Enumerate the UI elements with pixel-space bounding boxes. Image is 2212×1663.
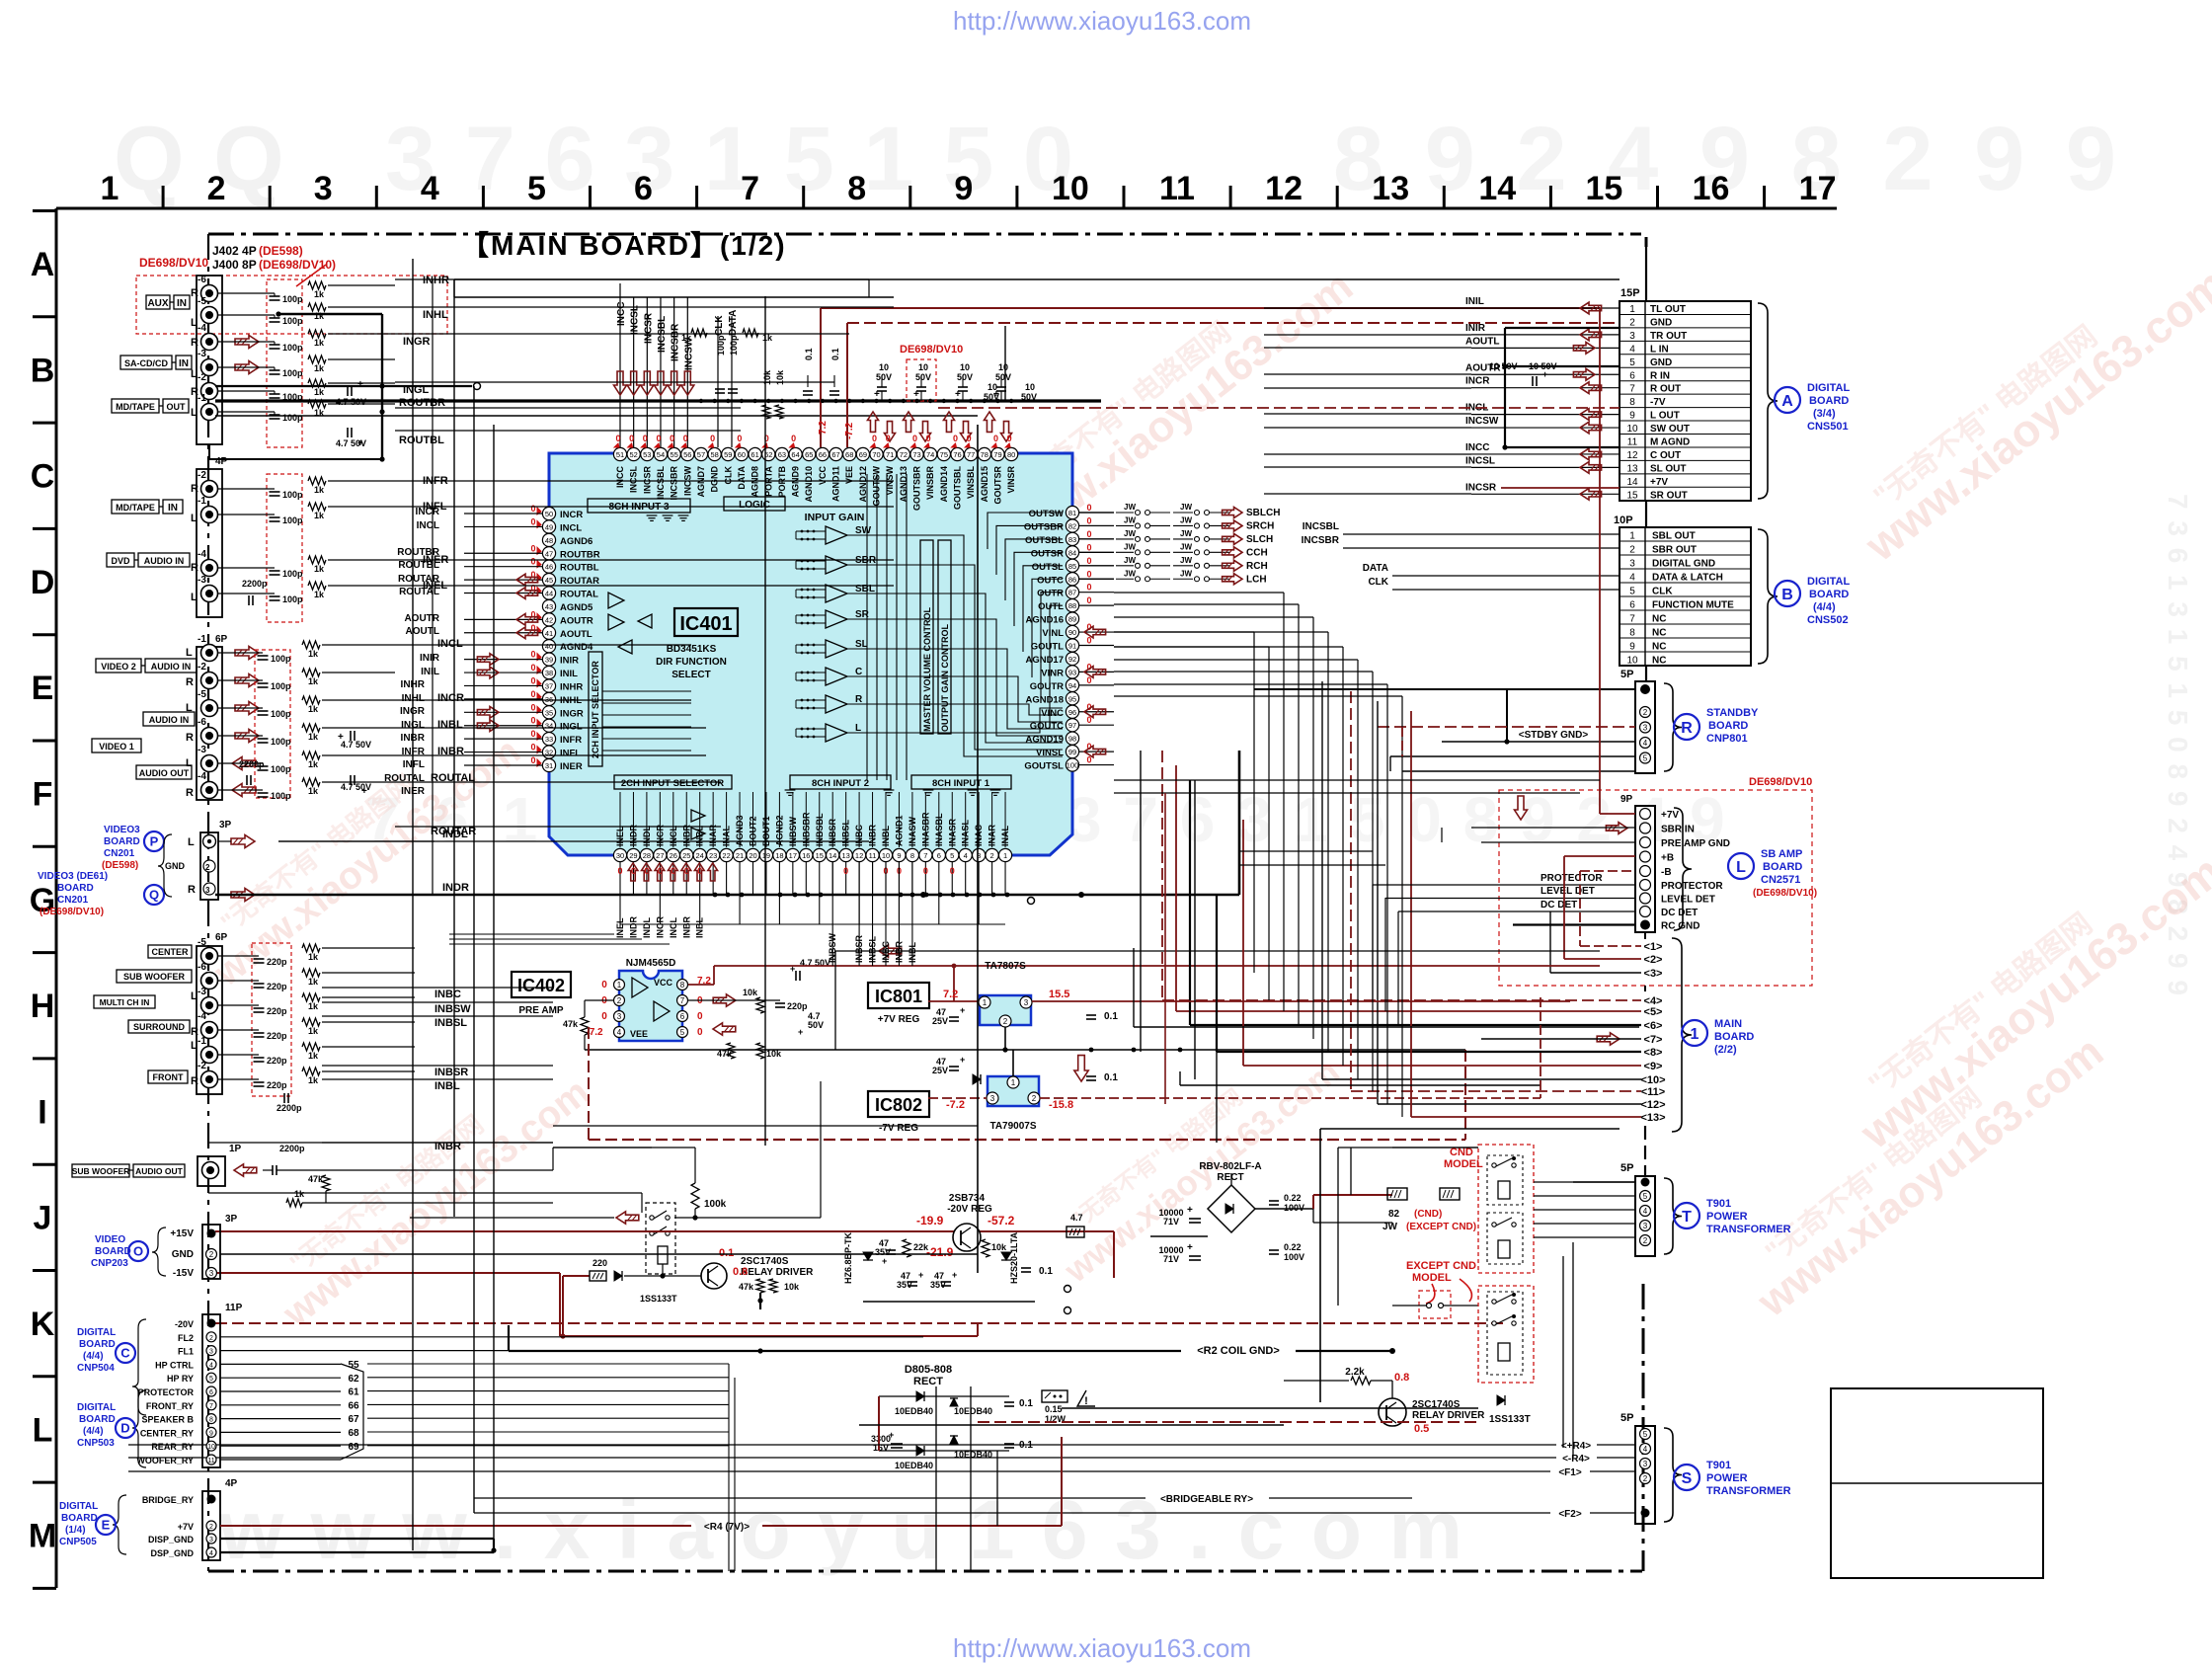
border tick xyxy=(1015,186,1018,208)
capacitor 220p xyxy=(254,1081,265,1083)
svg-text:!: ! xyxy=(1084,1395,1088,1407)
svg-text:10: 10 xyxy=(879,362,889,372)
arrow SBR IN xyxy=(1606,823,1627,834)
svg-text:1k: 1k xyxy=(314,590,325,599)
wire horizontal net xyxy=(1114,646,1343,648)
resistor 1k xyxy=(302,696,320,704)
svg-text:71V: 71V xyxy=(1163,1254,1179,1264)
svg-text:8: 8 xyxy=(910,851,914,860)
svg-text:<1>: <1> xyxy=(1644,941,1663,953)
IC401 pin 50 xyxy=(542,507,555,519)
wire AOUTR to IC401 xyxy=(464,618,542,620)
brace CNP801 xyxy=(1664,683,1682,771)
svg-text:3: 3 xyxy=(1643,724,1648,733)
svg-text:GND: GND xyxy=(172,1249,194,1260)
svg-text:92: 92 xyxy=(1068,655,1076,664)
wire AOUTL to IC401 xyxy=(464,632,542,634)
IC401 pin 85 xyxy=(1066,559,1078,572)
connector T901 5P strip xyxy=(1635,1176,1655,1256)
svg-text:1: 1 xyxy=(1629,304,1635,315)
wire INCL to IC401 xyxy=(464,525,542,527)
wire long black y1099 xyxy=(1180,1084,1540,1086)
arrow SA-CD R xyxy=(235,336,259,349)
RCA jack pin -4 xyxy=(201,782,218,799)
svg-text:INCSW: INCSW xyxy=(1465,416,1499,427)
resistor 1k xyxy=(302,969,320,977)
IC401 pin 21 xyxy=(733,848,746,861)
red dashed box caps C-D xyxy=(267,474,302,622)
regulator TA7807S body xyxy=(980,995,1031,1025)
arrow SBLCH group xyxy=(1223,574,1242,585)
circled B xyxy=(1775,581,1800,606)
svg-text:-5: -5 xyxy=(197,296,206,307)
svg-text:2: 2 xyxy=(209,1524,213,1531)
wire vertical net xyxy=(1386,684,1388,1104)
IC401 pin 44 xyxy=(542,587,555,599)
red dashed box cap 10 50V xyxy=(907,359,936,401)
svg-text:78: 78 xyxy=(981,450,988,459)
svg-text:1: 1 xyxy=(617,981,622,990)
svg-text:13: 13 xyxy=(1372,170,1409,207)
svg-text:IN: IN xyxy=(177,298,187,309)
op-amp IC801 designator xyxy=(868,983,929,1008)
svg-text:46: 46 xyxy=(545,563,553,572)
RCA jack pin -2 xyxy=(201,481,218,498)
IC401 internal wires right pins staircase xyxy=(987,513,1063,549)
IC401 pin 87 xyxy=(1066,586,1078,598)
border tick xyxy=(375,186,378,208)
arrows video2 audio in xyxy=(235,647,259,660)
svg-text:INCL: INCL xyxy=(560,522,582,533)
svg-text:6: 6 xyxy=(937,851,941,860)
resistor 47k driver xyxy=(756,1279,764,1293)
op-amp IC802 designator xyxy=(868,1091,929,1117)
wire 47k bottom xyxy=(325,1191,327,1203)
svg-text:26: 26 xyxy=(670,851,677,860)
svg-text:1: 1 xyxy=(1003,851,1007,860)
IC401 pin 16 xyxy=(800,848,813,861)
IC401 pin 28 xyxy=(640,848,653,861)
IC401 pin 92 xyxy=(1066,652,1078,665)
wire DATA to CNS502 xyxy=(1392,575,1619,577)
wire INEL long xyxy=(395,585,894,587)
capacitor 100p xyxy=(270,516,280,518)
diode 10EDB40 b xyxy=(950,1398,958,1406)
svg-text:【MAIN BOARD】(1/2): 【MAIN BOARD】(1/2) xyxy=(461,230,787,261)
capacitor 100p xyxy=(270,491,280,493)
wire CLK vertical xyxy=(717,316,719,447)
svg-text:0.5: 0.5 xyxy=(1414,1423,1429,1435)
svg-text:<2>: <2> xyxy=(1644,954,1663,966)
diode AK04VI xyxy=(973,1074,981,1084)
wire IC401 bottom pin drop xyxy=(739,862,741,924)
IC401 pin 31 xyxy=(542,758,555,771)
wire IC402 out xyxy=(688,999,780,1001)
arrow input INCSL xyxy=(627,371,640,395)
wire VEE maroon dashed horizontal xyxy=(847,322,1619,324)
wire INIL to CNS501 xyxy=(1471,307,1619,309)
svg-text:2: 2 xyxy=(205,863,210,872)
svg-text:+: + xyxy=(960,1005,965,1015)
node G xyxy=(920,892,926,898)
RCA jack pin -5 xyxy=(201,700,218,717)
svg-text:VIDEO 1: VIDEO 1 xyxy=(99,742,134,752)
IC401 MASTER VOLUME CONTROL box xyxy=(920,540,933,734)
svg-text:AOUTL: AOUTL xyxy=(1465,336,1499,347)
svg-text:2200p: 2200p xyxy=(279,1144,305,1153)
relay coil 2 xyxy=(1498,1240,1510,1258)
svg-text:3: 3 xyxy=(205,886,210,895)
svg-text:SURROUND: SURROUND xyxy=(133,1022,186,1032)
svg-text:AGND14: AGND14 xyxy=(939,466,949,503)
table divider xyxy=(1619,473,1751,475)
svg-text:SBR OUT: SBR OUT xyxy=(1652,545,1697,556)
wire T strip top feed xyxy=(1573,1181,1635,1183)
wire bottom fan xyxy=(898,862,900,966)
svg-text:41: 41 xyxy=(545,629,553,638)
capacitor 100p xyxy=(258,792,269,794)
svg-text:INBC: INBC xyxy=(434,989,461,1000)
arrow pair up xyxy=(943,412,954,432)
RCA jack pin -6 xyxy=(201,728,218,745)
table divider xyxy=(1619,623,1751,625)
wire input row xyxy=(218,567,275,569)
svg-text:DATA: DATA xyxy=(1363,563,1388,574)
svg-text:BOARD: BOARD xyxy=(1809,395,1849,407)
resistor 1k xyxy=(302,1018,320,1026)
svg-text:0: 0 xyxy=(1086,542,1091,552)
svg-text:SRCH: SRCH xyxy=(1246,520,1274,531)
circled O xyxy=(128,1241,148,1261)
wire INDL long xyxy=(278,840,869,842)
svg-text:+15V: +15V xyxy=(170,1228,194,1239)
svg-text:OUTSL: OUTSL xyxy=(1032,562,1064,573)
svg-text:L: L xyxy=(855,723,861,734)
resistor 1k xyxy=(302,1068,320,1075)
wire CNP504 pin FRONT_RY xyxy=(220,1404,341,1406)
IC402 pin 4 xyxy=(614,1027,625,1038)
svg-text:INPUT GAIN: INPUT GAIN xyxy=(805,512,865,523)
svg-text:-20V: -20V xyxy=(175,1319,194,1329)
border row tick xyxy=(33,740,56,743)
svg-text:0: 0 xyxy=(683,434,688,443)
resistor 10k IC402 xyxy=(756,997,764,1013)
svg-text:0.22: 0.22 xyxy=(1284,1193,1302,1203)
IC401 internal wires amps to right stairs xyxy=(847,535,1063,756)
svg-text:3P: 3P xyxy=(225,1214,238,1225)
connector 4P strip xyxy=(197,469,222,617)
svg-text:C: C xyxy=(31,458,55,496)
IC401 pin 37 xyxy=(542,679,555,692)
connector subwoofer 1P box xyxy=(197,1156,225,1186)
resistor 1k xyxy=(308,582,326,590)
svg-text:JW: JW xyxy=(1180,515,1192,524)
svg-text:9: 9 xyxy=(954,170,973,207)
svg-text:10k: 10k xyxy=(743,988,758,997)
svg-text:4.7 50V: 4.7 50V xyxy=(341,740,371,750)
svg-text:CENTER_RY: CENTER_RY xyxy=(140,1428,194,1438)
board outline dash-dot top xyxy=(208,233,1641,236)
svg-text:0: 0 xyxy=(1086,529,1091,539)
svg-text:ROUTBL: ROUTBL xyxy=(560,563,599,574)
wire to main board diamond xyxy=(1216,895,1218,1052)
svg-text:NC: NC xyxy=(1652,628,1666,639)
svg-text:ROUTBL: ROUTBL xyxy=(399,435,444,446)
IC401 2CH INPUT SELECTOR vertical box xyxy=(589,652,602,766)
svg-text:3: 3 xyxy=(314,170,333,207)
svg-text:CN2571: CN2571 xyxy=(1761,874,1800,886)
connector CN2571 pin lower 1 xyxy=(1640,893,1651,904)
svg-text:35: 35 xyxy=(545,708,553,717)
svg-text:BOARD: BOARD xyxy=(79,1414,116,1425)
svg-text:J: J xyxy=(34,1200,52,1237)
svg-text:T901: T901 xyxy=(1706,1198,1731,1210)
IC401 pin 5 xyxy=(946,848,959,861)
wire PRE AMP GND xyxy=(1481,841,1635,843)
svg-text:100p: 100p xyxy=(282,569,303,579)
wire INCR long xyxy=(395,699,691,701)
svg-text:2: 2 xyxy=(209,1250,214,1259)
connector CN2571 pin 2 xyxy=(1640,837,1651,848)
red dashed box relays lower xyxy=(1478,1286,1534,1383)
IC401 pin 59 xyxy=(722,447,735,460)
wire vertical from AUX xyxy=(453,279,455,297)
wire MD/TAPE out long xyxy=(215,415,978,417)
svg-text:15: 15 xyxy=(1585,170,1622,207)
table divider xyxy=(1619,327,1751,329)
IC401 pin 22 xyxy=(720,848,733,861)
svg-text:0: 0 xyxy=(791,434,796,443)
wire input row xyxy=(218,341,275,343)
svg-text:OUT: OUT xyxy=(167,402,187,412)
wire IC401 top pin 51 xyxy=(619,283,621,447)
svg-text:<6>: <6> xyxy=(1644,1020,1663,1032)
svg-text:4.7: 4.7 xyxy=(1070,1213,1083,1223)
svg-text:83: 83 xyxy=(1068,535,1076,544)
wire IC401 bottom pin drop xyxy=(712,862,714,895)
svg-text:85: 85 xyxy=(1068,562,1076,571)
svg-text:2.2k: 2.2k xyxy=(1345,1367,1365,1378)
connector CN2571 pin 0 xyxy=(1640,809,1651,820)
RCA jack pin -2 xyxy=(201,383,218,400)
arrow bottom pins up xyxy=(668,863,677,881)
svg-text:0: 0 xyxy=(629,434,634,443)
wire top long 2 xyxy=(454,296,894,298)
IC401 pin 71 xyxy=(884,447,897,460)
IC401 pin 30 xyxy=(613,848,626,861)
transistor 2SC1740S lower xyxy=(1379,1398,1406,1426)
wire +15V maroon long xyxy=(215,1230,1114,1232)
svg-text:<-R4>: <-R4> xyxy=(1562,1454,1590,1465)
circled P xyxy=(144,831,164,851)
svg-text:0: 0 xyxy=(530,543,535,553)
svg-text:+7V: +7V xyxy=(1661,810,1679,821)
svg-text:43: 43 xyxy=(545,602,553,611)
capacitor 0.1 xyxy=(803,390,813,392)
wire -B maroon dashed xyxy=(1580,870,1635,872)
brace T901 S xyxy=(1664,1428,1682,1522)
border row tick xyxy=(33,1269,56,1272)
capacitor 0.1 rect a xyxy=(1004,1401,1014,1403)
svg-text:25: 25 xyxy=(682,851,690,860)
wire input row xyxy=(218,762,263,764)
wire 4.7 to right xyxy=(1084,1230,1114,1232)
svg-text:2SC1740S: 2SC1740S xyxy=(741,1256,789,1267)
capacitor 0.22 100V a xyxy=(1269,1200,1279,1202)
svg-text:w w w . x i a o y u 1 6 3 . c: w w w . x i a o y u 1 6 3 . c o m xyxy=(218,1483,1464,1576)
RCA jack pin -2 xyxy=(201,673,218,689)
resistor 1k xyxy=(302,778,320,786)
table info divider xyxy=(1831,1482,2043,1484)
svg-text:VINSR: VINSR xyxy=(1006,466,1016,494)
IC401 bottom buffer triangles xyxy=(691,810,705,822)
IC401 pin 79 xyxy=(991,447,1004,460)
wire INHR long xyxy=(395,278,869,280)
arrow down maroon mid xyxy=(1074,1056,1088,1081)
IC401 pin 43 xyxy=(542,599,555,612)
wire out TA79007S maroon dashed xyxy=(1040,1097,1145,1099)
pin FL2 xyxy=(206,1332,216,1342)
wire table feed long xyxy=(1264,427,1471,429)
svg-text:POWER: POWER xyxy=(1706,1211,1748,1223)
arrow pair up xyxy=(903,412,913,432)
wire long vertical 2 xyxy=(473,386,475,1513)
svg-text:BOARD: BOARD xyxy=(95,1246,131,1257)
svg-text:INCR: INCR xyxy=(437,692,464,704)
svg-text:25V: 25V xyxy=(932,1066,948,1075)
IC401 pin 70 xyxy=(870,447,883,460)
wire ROUTAR to IC401 xyxy=(464,579,542,581)
svg-text:INGL: INGL xyxy=(560,722,583,733)
IC401 pin 3 xyxy=(973,848,986,861)
svg-text:27: 27 xyxy=(656,851,664,860)
TA79007S pin 1 xyxy=(1007,1076,1019,1088)
capacitor 100p xyxy=(728,388,738,390)
arrow CNS501 INIR xyxy=(1580,329,1602,341)
svg-text:AGND17: AGND17 xyxy=(1025,655,1064,666)
svg-text:K: K xyxy=(31,1306,55,1343)
svg-text:INCSR: INCSR xyxy=(643,312,654,344)
svg-text:AUDIO OUT: AUDIO OUT xyxy=(135,1166,184,1176)
svg-text:DE698/DV10: DE698/DV10 xyxy=(1749,776,1812,788)
connector CN2571 pin 1 xyxy=(1640,823,1651,833)
svg-text:+: + xyxy=(1542,369,1547,379)
svg-text:0: 0 xyxy=(1007,434,1012,443)
svg-text:0.1: 0.1 xyxy=(804,348,814,360)
svg-text:0.22: 0.22 xyxy=(1284,1242,1302,1252)
svg-text:INBL: INBL xyxy=(437,719,463,731)
svg-text:38: 38 xyxy=(545,669,553,677)
wire diamond2 xyxy=(1564,958,1641,960)
wire relay row upper xyxy=(208,1192,642,1194)
IC401 pin 27 xyxy=(654,848,667,861)
label DVD AUDIO IN xyxy=(107,553,134,567)
wire to main board diamond xyxy=(1480,1038,1482,1040)
TA7807S pin 3 xyxy=(1020,996,1032,1008)
svg-text:AGND10: AGND10 xyxy=(804,466,814,503)
svg-text:76: 76 xyxy=(953,450,961,459)
svg-text:3: 3 xyxy=(209,1269,214,1278)
red dashed box DE698/DV10 around AUX xyxy=(136,276,447,334)
pin +15V xyxy=(207,1229,216,1238)
relay dashed box 1 xyxy=(1487,1155,1523,1205)
svg-text:MD/TAPE: MD/TAPE xyxy=(116,402,155,412)
resistor 1k xyxy=(308,400,326,408)
resistor 47k vert xyxy=(322,1175,330,1191)
wire DISP_GND xyxy=(220,1538,494,1540)
wire 100k top xyxy=(694,1148,696,1183)
svg-text:0: 0 xyxy=(710,434,715,443)
IC401 pin 34 xyxy=(542,719,555,732)
resistor 220 xyxy=(590,1271,606,1281)
svg-text:87: 87 xyxy=(1068,589,1076,597)
wire ROUTAR long xyxy=(395,826,721,828)
svg-text:5: 5 xyxy=(950,851,954,860)
svg-text:RECT: RECT xyxy=(913,1376,943,1387)
wire subwoofer right xyxy=(326,1169,553,1171)
svg-text:INCSBL: INCSBL xyxy=(656,465,666,499)
junction dots x387 xyxy=(379,383,384,388)
svg-text:MODEL: MODEL xyxy=(1444,1158,1483,1170)
svg-text:3: 3 xyxy=(1024,998,1029,1007)
wire IC401 bottom pin drop xyxy=(898,862,900,924)
wire IC401 right pin out xyxy=(1079,524,1114,526)
circled 1 xyxy=(1682,1020,1707,1046)
wire IC401 bottom pin drop xyxy=(699,862,701,924)
arrow pair up xyxy=(867,412,878,432)
pin S 5 xyxy=(1641,1509,1650,1518)
IC401 internal wires left to amps xyxy=(796,530,826,532)
svg-text:62: 62 xyxy=(348,1374,359,1385)
svg-text:INIR: INIR xyxy=(420,653,440,664)
svg-text:L: L xyxy=(191,990,197,1002)
svg-text:1k: 1k xyxy=(308,1001,319,1011)
svg-text:VEE: VEE xyxy=(630,1029,648,1039)
IC401 input selector triangles xyxy=(608,593,624,608)
svg-text:4: 4 xyxy=(1643,739,1648,748)
capacitor 100p xyxy=(270,414,280,416)
svg-text:R: R xyxy=(186,732,194,744)
relay dashed box 3 xyxy=(1487,1292,1523,1375)
resistor 1k top xyxy=(743,329,758,337)
wire rect bus right xyxy=(1009,1424,1284,1426)
wire to signal label xyxy=(328,480,395,482)
border tick xyxy=(162,186,165,208)
svg-text:0.8: 0.8 xyxy=(1394,1372,1409,1384)
wire INFR to IC401 xyxy=(464,738,542,740)
wire IC401 bottom pin drop xyxy=(885,862,887,895)
svg-text:GOUTSBL: GOUTSBL xyxy=(953,465,963,510)
svg-text:VINSBR: VINSBR xyxy=(925,466,935,501)
wire IC401 bottom pin drop xyxy=(858,862,860,924)
svg-text:2: 2 xyxy=(1643,1474,1648,1483)
wire input row xyxy=(218,1054,259,1056)
border ruler line xyxy=(56,207,1837,210)
svg-text:VINC: VINC xyxy=(1041,708,1064,719)
svg-text:3: 3 xyxy=(209,1537,213,1544)
svg-text:0: 0 xyxy=(967,434,972,443)
svg-text:MODEL: MODEL xyxy=(1412,1272,1452,1284)
svg-text:L: L xyxy=(191,592,197,603)
svg-text:INHR: INHR xyxy=(560,681,583,692)
IC401 pin 86 xyxy=(1066,573,1078,586)
svg-text:VCC: VCC xyxy=(654,978,673,988)
svg-text:5P: 5P xyxy=(1620,1412,1633,1424)
RCA jack pin -1 xyxy=(201,1047,218,1064)
wire long vertical 4 xyxy=(764,296,766,1146)
pin T 3 xyxy=(1640,1206,1651,1217)
svg-text:1k: 1k xyxy=(294,1189,305,1199)
